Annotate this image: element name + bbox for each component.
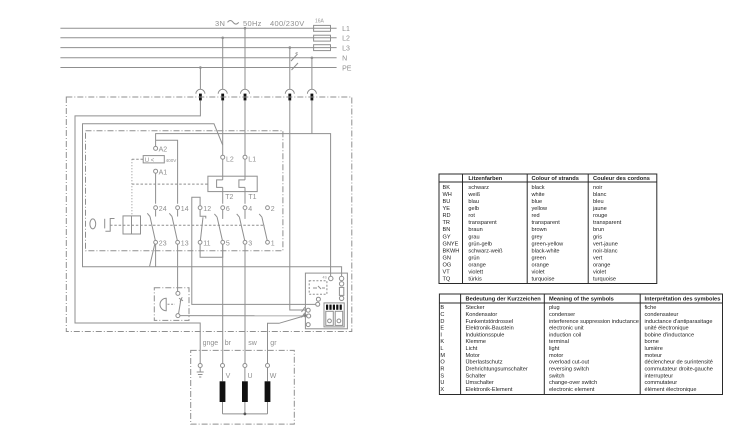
svg-text:14: 14 (181, 206, 189, 213)
svg-text:yellow: yellow (532, 206, 549, 212)
svg-text:noir: noir (593, 185, 602, 191)
svg-text:brown: brown (532, 227, 547, 233)
svg-text:interference suppression induc: interference suppression inductance (549, 319, 639, 325)
svg-text:switch: switch (549, 373, 565, 379)
svg-text:B: B (440, 305, 444, 311)
svg-text:déclencheur de surintensité: déclencheur de surintensité (645, 360, 713, 366)
svg-text:A2: A2 (159, 147, 168, 154)
svg-text:gnge: gnge (203, 340, 219, 347)
svg-text:T1: T1 (248, 194, 256, 201)
svg-text:GNYE: GNYE (443, 241, 459, 247)
svg-text:Licht: Licht (466, 346, 478, 352)
svg-text:blau: blau (468, 199, 479, 205)
svg-text:grün: grün (468, 255, 479, 261)
svg-text:blanc: blanc (593, 192, 607, 198)
svg-text:turquoise: turquoise (593, 277, 616, 283)
svg-text:OG: OG (443, 263, 452, 269)
svg-text:change-over switch: change-over switch (549, 380, 597, 386)
svg-text:commutateur droite-gauche: commutateur droite-gauche (645, 367, 713, 373)
svg-text:orange: orange (468, 263, 485, 269)
svg-text:schwarz-weiß: schwarz-weiß (468, 248, 503, 254)
svg-text:O: O (440, 360, 445, 366)
svg-text:condenser: condenser (549, 312, 575, 318)
svg-text:Drehrichtungsumschalter: Drehrichtungsumschalter (466, 367, 528, 373)
svg-text:50Hz: 50Hz (243, 19, 262, 28)
svg-text:GY: GY (443, 234, 451, 240)
svg-text:A1: A1 (159, 169, 168, 176)
svg-text:11: 11 (203, 240, 210, 247)
svg-text:T2: T2 (225, 194, 233, 201)
svg-text:white: white (531, 192, 545, 198)
svg-text:3N: 3N (215, 19, 225, 28)
svg-text:E: E (440, 326, 444, 332)
svg-text:3: 3 (248, 240, 252, 247)
svg-text:gelb: gelb (468, 206, 479, 212)
svg-text:grey: grey (532, 234, 543, 240)
svg-text:red: red (532, 213, 540, 219)
svg-text:6: 6 (226, 206, 230, 213)
svg-text:reversing switch: reversing switch (549, 367, 589, 373)
svg-text:inductance d'antiparasitage: inductance d'antiparasitage (645, 319, 713, 325)
svg-text:TR: TR (443, 220, 450, 226)
svg-text:transparent: transparent (532, 220, 561, 226)
svg-text:light: light (549, 346, 560, 352)
svg-text:brun: brun (593, 227, 604, 233)
svg-text:Klemme: Klemme (466, 339, 487, 345)
svg-text:YE: YE (443, 206, 451, 212)
svg-text:C: C (440, 312, 444, 318)
svg-text:black-white: black-white (532, 248, 560, 254)
svg-text:blue: blue (532, 199, 543, 205)
svg-text:N: N (342, 56, 347, 63)
svg-text:orange: orange (532, 263, 549, 269)
svg-text:Elektronik-Element: Elektronik-Element (466, 387, 513, 393)
svg-text:transparent: transparent (468, 220, 497, 226)
svg-text:terminal: terminal (549, 339, 569, 345)
svg-text:Induktionsspule: Induktionsspule (466, 332, 505, 338)
svg-text:BN: BN (443, 227, 451, 233)
svg-text:R: R (440, 367, 444, 373)
svg-text:400/230V: 400/230V (270, 19, 305, 28)
svg-text:vert-jaune: vert-jaune (593, 241, 618, 247)
svg-text:4S: 4S (323, 276, 328, 280)
svg-text:24: 24 (159, 206, 167, 213)
svg-text:4: 4 (248, 206, 252, 213)
svg-text:gris: gris (593, 234, 602, 240)
svg-text:L1: L1 (248, 157, 256, 164)
svg-text:Umschalter: Umschalter (466, 380, 494, 386)
svg-text:L1: L1 (342, 26, 350, 33)
svg-text:Elektronik-Baustein: Elektronik-Baustein (466, 326, 514, 332)
svg-text:electronic unit: electronic unit (549, 326, 584, 332)
svg-text:induction coil: induction coil (549, 332, 581, 338)
svg-text:borne: borne (645, 339, 659, 345)
svg-text:bleu: bleu (593, 199, 604, 205)
svg-text:lumière: lumière (645, 346, 663, 352)
svg-text:Couleur des cordons: Couleur des cordons (593, 176, 650, 182)
svg-text:noir-blanc: noir-blanc (593, 248, 618, 254)
svg-text:electronic element: electronic element (549, 387, 595, 393)
svg-text:D: D (440, 319, 444, 325)
svg-text:rot: rot (468, 213, 475, 219)
svg-text:12: 12 (203, 206, 211, 213)
svg-text:U <: U < (145, 158, 155, 164)
svg-text:PE: PE (342, 65, 352, 72)
svg-text:Kondensator: Kondensator (466, 312, 498, 318)
svg-text:Schalter: Schalter (466, 373, 487, 379)
svg-text:transparent: transparent (593, 220, 622, 226)
svg-text:rouge: rouge (593, 213, 607, 219)
svg-text:BKWH: BKWH (443, 248, 460, 254)
svg-text:condensateur: condensateur (645, 312, 679, 318)
svg-text:grau: grau (468, 234, 479, 240)
svg-text:green: green (532, 255, 546, 261)
svg-text:U: U (440, 380, 444, 386)
svg-text:L: L (440, 346, 443, 352)
svg-text:green-yellow: green-yellow (532, 241, 565, 247)
svg-text:Interprétation des symboles: Interprétation des symboles (645, 297, 721, 303)
svg-text:W: W (270, 373, 277, 380)
svg-text:13: 13 (181, 240, 189, 247)
svg-text:orange: orange (593, 263, 610, 269)
svg-text:Bedeutung der Kurzzeichen: Bedeutung der Kurzzeichen (466, 297, 542, 303)
svg-text:L2: L2 (342, 36, 350, 43)
svg-text:motor: motor (549, 353, 563, 359)
svg-text:violet: violet (593, 270, 607, 276)
svg-text:1: 1 (271, 240, 275, 247)
svg-text:RD: RD (443, 213, 451, 219)
svg-text:BU: BU (443, 199, 451, 205)
svg-text:élément électronique: élément électronique (645, 387, 697, 393)
svg-text:VT: VT (443, 270, 451, 276)
svg-text:WH: WH (443, 192, 452, 198)
svg-text:Überlastschutz: Überlastschutz (466, 359, 503, 366)
svg-text:grün-gelb: grün-gelb (468, 241, 492, 247)
svg-text:violet: violet (532, 270, 546, 276)
svg-text:turquoise: turquoise (532, 277, 555, 283)
svg-text:5: 5 (226, 240, 230, 247)
svg-text:sw: sw (248, 340, 258, 347)
svg-text:M: M (440, 353, 445, 359)
svg-text:Meaning of the symbols: Meaning of the symbols (549, 297, 614, 303)
svg-text:16A: 16A (315, 19, 325, 25)
svg-text:V: V (226, 373, 231, 380)
svg-text:S: S (440, 373, 444, 379)
svg-text:black: black (532, 185, 545, 191)
svg-text:violett: violett (468, 270, 483, 276)
svg-text:overload cut-out: overload cut-out (549, 360, 590, 366)
svg-text:BK: BK (443, 185, 451, 191)
svg-text:moteur: moteur (645, 353, 663, 359)
svg-text:gr: gr (270, 340, 277, 347)
svg-text:türkis: türkis (468, 277, 482, 283)
svg-text:commutateur: commutateur (645, 380, 678, 386)
svg-text:fiche: fiche (645, 305, 657, 311)
svg-text:Litzenfarben: Litzenfarben (468, 176, 502, 182)
svg-text:braun: braun (468, 227, 482, 233)
svg-text:unité électronique: unité électronique (645, 326, 689, 332)
svg-text:L2: L2 (226, 157, 234, 164)
svg-text:U: U (248, 373, 253, 380)
svg-text:weiß: weiß (467, 192, 480, 198)
svg-text:Colour of strands: Colour of strands (532, 176, 579, 182)
svg-text:X: X (440, 387, 444, 393)
svg-text:vert: vert (593, 255, 603, 261)
svg-text:TQ: TQ (443, 277, 451, 283)
svg-text:L3: L3 (342, 46, 350, 53)
svg-text:K: K (440, 339, 444, 345)
svg-text:br: br (225, 340, 232, 347)
svg-text:23: 23 (159, 240, 167, 247)
svg-text:plug: plug (549, 305, 560, 311)
svg-text:400V: 400V (166, 158, 178, 163)
svg-text:Funkentstördrossel: Funkentstördrossel (466, 319, 514, 325)
svg-text:jaune: jaune (592, 206, 607, 212)
svg-text:bobine d'inductance: bobine d'inductance (645, 332, 695, 338)
svg-text:schwarz: schwarz (468, 185, 489, 191)
svg-text:Stecker: Stecker (466, 305, 485, 311)
svg-text:Motor: Motor (466, 353, 480, 359)
svg-text:2: 2 (271, 206, 275, 213)
svg-text:interrupteur: interrupteur (645, 373, 674, 379)
svg-text:GN: GN (443, 255, 451, 261)
